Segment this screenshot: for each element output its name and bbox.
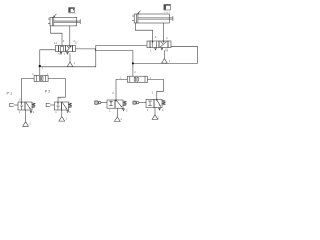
wire cylinder 2A cap port to valve 2V port 4: [135, 23, 152, 41]
compressed air supply at valve 1V port 1: [67, 55, 73, 67]
wire cylinder 1A cap port to valve 1V port 4: [51, 26, 62, 46]
distance rule box above cylinder 1A: [69, 8, 75, 13]
wire cylinder 1A rod port to valve 1V port 2: [69, 26, 71, 46]
valve 2V exhaust 5: [155, 48, 157, 50]
valve 2V 5/2-way double pilot: [147, 41, 171, 48]
wire valve B output to OR right input: [147, 79, 163, 99]
valve 1V exhaust 3: [67, 52, 69, 54]
pushbutton actuator P2: [46, 103, 54, 106]
junction node on pilot 14 wire: [39, 65, 41, 67]
svg-text:P 2: P 2: [45, 90, 51, 94]
wire P2 output to AND right input: [48, 78, 65, 102]
marks under label box 2A: [165, 12, 170, 13]
spring return P2: [69, 103, 72, 108]
label box above cylinder 2A: [164, 5, 171, 11]
wire cylinder 2A rod port to valve 2V port 2: [163, 23, 165, 41]
supply line and triangle P2: [59, 110, 65, 121]
position flag on cylinder 2A piston: [138, 11, 141, 14]
wire P1 output to AND left input: [22, 78, 34, 102]
exhaust port 3 of valve B: [159, 108, 161, 110]
long wire from junction to right riser: [39, 45, 148, 66]
valve 2V exhaust 3: [161, 48, 163, 50]
supply line and triangle P1: [23, 110, 29, 126]
wire valve 1V pilot 14 to two-pressure valve output: [40, 50, 56, 76]
exhaust port 3 of P1: [30, 111, 32, 113]
two-pressure valve 1V3 (AND): [34, 75, 48, 81]
position flag on cylinder 1A piston: [53, 14, 56, 17]
spring return P1: [32, 103, 35, 108]
spring return valve A: [123, 101, 126, 106]
roller actuator valve A: [95, 101, 107, 104]
cylinder 2A (double-acting): [132, 14, 173, 23]
valve P2 3/2 pushbutton: [55, 102, 69, 110]
compressed air supply at valve 2V port 1: [162, 50, 168, 63]
roller actuator valve B: [133, 101, 146, 104]
valve 1V 5/2-way double pilot: [56, 46, 76, 52]
supply line and triangle valve B: [152, 108, 158, 120]
valve P1 3/2 pushbutton: [18, 102, 32, 110]
valve A 3/2 roller lever: [107, 100, 123, 108]
pushbutton actuator P1: [10, 103, 18, 106]
valve 1V exhaust 5: [60, 52, 62, 54]
exhaust port 3 of valve A: [123, 109, 125, 111]
junction node on shuttle output riser: [132, 62, 134, 64]
valve B 3/2 roller lever: [146, 99, 162, 107]
wire valve A output to OR left input: [116, 79, 127, 100]
wire junction to right edge and valve 2V pilot 12: [133, 46, 198, 63]
scale ticks under rule box: [69, 13, 76, 14]
spring return valve B: [162, 100, 165, 105]
wire valve 1V pilot 12 to signal riser: [76, 49, 133, 76]
cylinder 1A (double-acting): [48, 17, 80, 26]
exhaust port 3 of P2: [67, 111, 69, 113]
shuttle valve 2V3 (OR): [127, 76, 147, 82]
supply line and triangle valve A: [114, 108, 120, 121]
svg-text:P 1: P 1: [7, 91, 13, 95]
